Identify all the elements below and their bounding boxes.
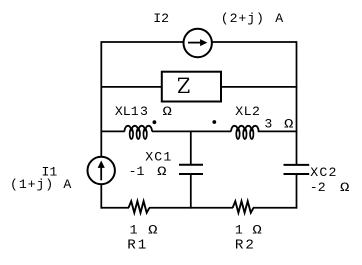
capacitor XC1 — [179, 164, 203, 166]
svg-text:Ω: Ω — [284, 116, 293, 131]
wire XC1 vertical upper — [190, 131, 192, 164]
svg-text:Ω: Ω — [148, 222, 157, 237]
svg-text:3: 3 — [140, 104, 148, 119]
wire coil row right — [258, 130, 298, 132]
svg-text:1: 1 — [130, 222, 138, 237]
svg-text:R1: R1 — [127, 238, 148, 254]
svg-text:(2+j): (2+j) — [221, 11, 265, 26]
wire top — [101, 41, 296, 43]
svg-text:XL1: XL1 — [115, 104, 139, 119]
svg-text:I2: I2 — [153, 11, 169, 26]
svg-text:Ω: Ω — [252, 222, 261, 237]
svg-text:3: 3 — [264, 116, 272, 131]
coupling dot XL1 — [153, 120, 157, 124]
current source I2 — [184, 29, 212, 57]
capacitor XC2 — [284, 164, 310, 166]
wire right vertical lower — [296, 174, 298, 209]
svg-text:Ω: Ω — [163, 104, 172, 119]
svg-text:A: A — [63, 177, 71, 192]
resistor R2 — [233, 201, 254, 213]
inductor XL2 — [231, 126, 259, 132]
wire left vertical upper — [100, 41, 102, 157]
svg-text:-1: -1 — [129, 164, 145, 179]
svg-text:XL2: XL2 — [235, 104, 260, 119]
svg-text:A: A — [275, 11, 283, 26]
wire right vertical upper — [296, 41, 298, 165]
wire coil row middle — [152, 130, 231, 132]
inductor XL1 — [125, 126, 153, 132]
svg-text:(1+j): (1+j) — [10, 177, 54, 192]
wire bottom right — [253, 207, 297, 209]
impedance box Z1 — [162, 72, 221, 102]
svg-text:-2: -2 — [310, 180, 326, 195]
wire bottom left — [101, 207, 130, 209]
wire coil row left — [101, 130, 125, 132]
svg-text:XC1: XC1 — [145, 149, 172, 164]
svg-text:1: 1 — [235, 222, 243, 237]
wire left vertical lower — [100, 184, 102, 209]
wire bottom middle — [149, 207, 233, 209]
resistor R1 — [129, 201, 150, 213]
wire Z row left — [101, 86, 162, 88]
wire XC1 vertical lower — [190, 174, 192, 209]
current source I1 — [88, 157, 115, 184]
svg-text:XC2: XC2 — [310, 165, 337, 180]
wire Z row right — [221, 86, 297, 88]
svg-text:R2: R2 — [235, 238, 256, 254]
svg-text:Ω: Ω — [340, 180, 349, 195]
svg-text:Ω: Ω — [157, 164, 166, 179]
coupling dot XL2 — [212, 120, 216, 124]
